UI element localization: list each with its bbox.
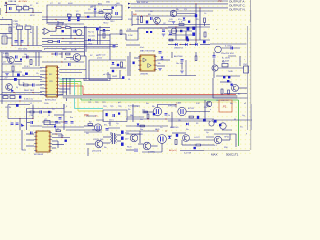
wire (84, 131, 102, 133)
wire thick bus (0, 51, 84, 53)
blue cap C11 (62, 30, 64, 32)
svg-text:47u: 47u (178, 19, 181, 21)
blue col sq3 (121, 143, 124, 146)
cap pair 3 (71, 122, 74, 124)
blue diode D7 (175, 43, 177, 46)
svg-text:B+ 13.8V: B+ 13.8V (222, 58, 231, 60)
wire (81, 55, 86, 57)
svg-text:GND1: GND1 (112, 76, 117, 78)
transistor Q17 (130, 134, 138, 142)
svg-text:3.3k: 3.3k (3, 53, 7, 55)
svg-text:4.7k: 4.7k (179, 22, 183, 24)
node (26, 56, 27, 57)
svg-text:Vref: Vref (140, 47, 144, 49)
wire (26, 139, 34, 141)
blue mark (112, 70, 114, 72)
cap inner2 (59, 118, 62, 120)
transistor Q11 (94, 124, 101, 131)
wire (22, 67, 42, 69)
svg-text:TP6: TP6 (118, 106, 121, 108)
svg-text:TP4: TP4 (103, 106, 106, 108)
svg-text:TP1: TP1 (88, 102, 91, 104)
svg-text:C14 22n: C14 22n (88, 36, 95, 38)
wire (224, 93, 247, 95)
svg-text:500C1T1: 500C1T1 (226, 152, 239, 156)
res small (228, 90, 230, 94)
wire (103, 136, 110, 138)
wire (168, 30, 192, 32)
wire (29, 7, 33, 9)
svg-text:78L12: 78L12 (103, 23, 108, 25)
wire (177, 13, 196, 15)
transformer T1 (112, 133, 114, 144)
wire (97, 31, 99, 45)
svg-text:10u 16V: 10u 16V (176, 63, 184, 65)
block LF2 (17, 26, 23, 29)
wire (229, 134, 231, 140)
svg-text:1k: 1k (23, 82, 25, 84)
wire (126, 118, 214, 120)
wire (220, 81, 232, 83)
wire (19, 119, 21, 131)
cyan vertical (74, 79, 76, 109)
nodes (55, 27, 56, 28)
fuse F1 (17, 7, 22, 10)
svg-text:MAX 738 5V/5A: MAX 738 5V/5A (140, 50, 155, 53)
vertical (61, 134, 63, 138)
wire (171, 52, 173, 58)
connector pin arrow 1 (128, 3, 131, 5)
IC U1 microcontroller DIP (46, 66, 58, 97)
svg-text:P2: P2 (223, 105, 227, 109)
resistor R11 (6, 53, 8, 58)
subcircuit box battery top (210, 43, 247, 45)
wire output N (131, 7, 228, 9)
svg-text:Cc: Cc (204, 13, 206, 15)
transistor Q14 mosfet (178, 107, 186, 115)
svg-text:X2: X2 (30, 5, 32, 7)
wire (7, 37, 12, 39)
red vertical (82, 86, 84, 95)
svg-text:C2: C2 (67, 14, 69, 16)
wire (221, 47, 240, 49)
resistor R8b (48, 41, 53, 43)
LED D2 (112, 7, 114, 9)
svg-text:AT89C2051: AT89C2051 (45, 99, 57, 102)
wire (107, 72, 109, 78)
wire vert (109, 74, 111, 79)
wire (48, 23, 58, 25)
wire (157, 59, 170, 61)
svg-text:REG1 7805: REG1 7805 (24, 90, 34, 92)
wire long right (62, 78, 122, 80)
resistor R12 (12, 66, 14, 71)
ground (172, 22, 176, 24)
ground (162, 34, 166, 36)
wire vertical (131, 11, 133, 26)
svg-text:2.2M: 2.2M (128, 35, 133, 37)
wire pin out 2 (59, 72, 82, 74)
svg-text:OUT GND OUT: OUT GND OUT (216, 100, 230, 102)
capacitor C6 (151, 17, 153, 20)
svg-text:330uH: 330uH (58, 135, 64, 137)
wire pin out 5 (59, 94, 63, 96)
wire (171, 112, 173, 128)
blue sq above IC3 (54, 126, 56, 128)
cap (231, 47, 233, 50)
wire (189, 139, 214, 141)
wire (98, 34, 111, 36)
svg-text:R2: R2 (89, 122, 91, 124)
op-amp symbol A (143, 58, 146, 62)
resistor R4b (204, 18, 206, 23)
resistor R13 (30, 60, 32, 65)
cap bars (169, 33, 172, 35)
wire (212, 119, 252, 121)
svg-text:6A05-600: 6A05-600 (92, 129, 100, 132)
wire y28 ext (138, 27, 196, 29)
svg-text:10k: 10k (136, 19, 139, 21)
wire (61, 52, 63, 58)
resistor R14 (66, 53, 71, 55)
transistor Q3 (170, 10, 177, 17)
wire (220, 75, 240, 77)
wire vert (38, 52, 40, 66)
capacitor C23 (16, 123, 19, 125)
subcircuit box mid (110, 34, 126, 52)
svg-text:LINE 2A: LINE 2A (8, 0, 17, 3)
wire bottom (142, 151, 162, 153)
cap pair 1 (55, 122, 58, 124)
wire (50, 124, 56, 126)
wire stub (0, 19, 12, 21)
box bottom edge 2 (89, 79, 108, 81)
blue cap small (188, 21, 190, 23)
IC U1 left pin wires (40, 67, 44, 69)
wire (2, 56, 8, 58)
wire pin r3 (52, 140, 58, 142)
wire (42, 121, 64, 123)
cap C21 (16, 104, 19, 107)
cap pair 2 (65, 122, 68, 124)
op-amp Q6 circle (215, 46, 222, 53)
wire (86, 143, 95, 145)
yellow vertical (77, 84, 79, 112)
svg-text:OUTPUT N: OUTPUT N (229, 7, 245, 11)
wire stub2 (0, 33, 12, 35)
nodes (11, 45, 12, 46)
wire vert navy 3 (69, 78, 71, 95)
wire (157, 65, 165, 67)
svg-text:LF1: LF1 (17, 24, 20, 26)
wire (182, 144, 196, 146)
capacitor C13 (113, 46, 116, 48)
diode D6 blue (186, 36, 188, 39)
wire sec2 (117, 140, 121, 142)
wire (195, 52, 197, 56)
blue sq a (223, 76, 225, 78)
node (6, 12, 7, 13)
wire (168, 24, 210, 26)
nodes (175, 26, 176, 27)
capacitor C1 (10, 7, 12, 10)
resistor R6 (57, 27, 62, 29)
colored wire cyan (59, 78, 74, 80)
cap inner (40, 111, 42, 114)
navy vertical (63, 104, 65, 130)
wire vert x138 (137, 16, 139, 25)
svg-text:MOV: MOV (30, 15, 35, 17)
wire (2, 71, 22, 73)
svg-text:22n C: 22n C (109, 120, 115, 122)
cap blue (153, 113, 155, 115)
transistor Q4 (76, 30, 82, 36)
wire (103, 142, 110, 144)
wire rail2 (42, 19, 122, 21)
resistor R3 (140, 17, 142, 23)
wire inner (27, 111, 30, 113)
wire (22, 7, 24, 9)
svg-text:Cx: Cx (108, 123, 110, 125)
filter block LF1 (24, 7, 29, 10)
node (46, 16, 47, 17)
blue col sq1 (121, 131, 124, 134)
blue bars in Q19 (161, 137, 164, 142)
red bus line (83, 94, 236, 96)
module blue glyph2 (118, 113, 120, 115)
wire (213, 71, 215, 78)
transistor Q16 C2073 (95, 140, 103, 148)
svg-text:Rq: Rq (230, 103, 233, 105)
diode D3 (183, 18, 186, 20)
wire vert (35, 52, 37, 66)
svg-text:Cg: Cg (242, 115, 245, 117)
cap (181, 60, 184, 62)
small box A (3, 96, 8, 99)
diode D4 blue (192, 27, 195, 30)
wire vert navy 2 (66, 78, 68, 101)
svg-text:22k: 22k (204, 107, 207, 109)
wire (55, 28, 57, 32)
wire (181, 63, 183, 70)
cap blue pair (117, 64, 119, 66)
vertical (181, 140, 183, 145)
yellow bus line faint (81, 101, 236, 103)
wire (129, 52, 131, 76)
nodes (147, 118, 148, 119)
svg-text:C2073: C2073 (93, 139, 99, 141)
resistor R2 (99, 12, 103, 14)
green bus line (81, 99, 239, 101)
op-amp symbol B (148, 64, 151, 68)
wire pin r4 (52, 144, 64, 146)
resistor R21 (189, 116, 194, 118)
wire (52, 53, 56, 55)
resistor R15 (121, 62, 123, 67)
resistor R20 (147, 114, 149, 119)
blue diode on row (88, 39, 90, 42)
svg-text:R12 1k: R12 1k (88, 32, 94, 34)
subcircuit box input left (12, 20, 42, 46)
frame right edge (247, 26, 249, 130)
transistor Q9 (6, 84, 13, 91)
wire (22, 56, 42, 58)
svg-text:22k: 22k (65, 25, 68, 27)
module cap (113, 114, 115, 117)
capacitor C3b (87, 16, 89, 18)
nodes (19, 118, 20, 119)
colored wire green (59, 81, 81, 83)
transistor Q13 mosfet (153, 107, 161, 115)
nodes (62, 38, 63, 39)
wire (222, 139, 230, 141)
svg-text:BAL 250V 5A: BAL 250V 5A (137, 1, 149, 4)
capacitor C22 (11, 123, 14, 125)
wire mid link (84, 12, 112, 14)
wire pin out 3 (59, 88, 70, 90)
vertical right of module (132, 104, 134, 122)
wire mid (50, 35, 84, 37)
blue cluster (25, 73, 28, 75)
wire (7, 4, 16, 6)
fsq small (20, 59, 22, 61)
wire vert navy 1 (62, 78, 64, 95)
wire (0, 76, 42, 78)
nodes (55, 19, 56, 20)
svg-text:GND: GND (88, 44, 93, 46)
capacitor C4 (116, 12, 118, 15)
wire (7, 105, 9, 119)
nodes (160, 27, 161, 28)
wire fuse drop (18, 10, 20, 13)
wire (2, 92, 42, 94)
svg-text:L-OUT: L-OUT (194, 137, 201, 139)
vertical (87, 148, 89, 156)
connector J1 AC line plug (4, 2, 7, 5)
svg-text:0.1u: 0.1u (24, 5, 28, 7)
wire (201, 144, 215, 146)
svg-text:(2SC2073): (2SC2073) (92, 151, 102, 153)
test point sq1 (146, 31, 148, 33)
svg-text:ADJ7660: ADJ7660 (174, 55, 183, 58)
wire (103, 9, 112, 11)
blue cap (19, 96, 21, 99)
svg-text:10n: 10n (168, 21, 171, 23)
capacitor left (133, 62, 135, 65)
left frame tick (0, 8, 2, 15)
wire (138, 143, 143, 145)
resistor R18 (88, 124, 93, 126)
svg-text:10k: 10k (158, 63, 161, 65)
cap C17 (27, 56, 29, 59)
capacitor C2 (68, 14, 72, 16)
svg-text:ThSD: ThSD (228, 71, 233, 73)
connector CN2 (244, 66, 249, 73)
module blue glyph1 (106, 113, 108, 116)
blue diode (161, 57, 164, 59)
wire (186, 111, 210, 113)
wire (19, 84, 24, 86)
wire (126, 30, 138, 32)
svg-text:C30: C30 (30, 115, 33, 117)
capacitor C3 (77, 14, 81, 16)
blue sq b (228, 76, 230, 78)
svg-text:Cy: Cy (116, 123, 118, 125)
svg-text:CON: CON (2, 34, 7, 36)
blue sq2 (203, 119, 206, 122)
svg-text:LM358N: LM358N (140, 74, 148, 76)
wire (134, 57, 140, 59)
wire pin r5 (52, 147, 56, 149)
vertical (70, 28, 72, 39)
resistor R22 (56, 130, 61, 132)
svg-text:0.33u 0.1u: 0.33u 0.1u (24, 98, 33, 100)
wire (110, 132, 112, 134)
cap (165, 114, 168, 116)
wire (239, 87, 248, 89)
wire (17, 29, 19, 45)
svg-text:1N5819 x3: 1N5819 x3 (174, 47, 183, 49)
blue cap (180, 30, 182, 32)
wire (18, 80, 20, 86)
cap above U4 (31, 132, 33, 135)
resistor R25 (196, 144, 201, 146)
wire (168, 44, 175, 46)
green vertical right (238, 100, 240, 146)
node (63, 121, 64, 122)
wire (180, 150, 204, 152)
capacitor C20 (213, 56, 216, 58)
blue col sq2 (121, 137, 124, 140)
circle lower (220, 123, 226, 129)
wire (27, 122, 30, 124)
wire (61, 27, 66, 29)
svg-text:(2.5V): (2.5V) (97, 58, 102, 60)
transistor Q19 big (158, 135, 167, 144)
cap blue big (187, 27, 190, 30)
wire (109, 52, 111, 60)
wire output A (136, 0, 228, 2)
nodes (51, 53, 52, 54)
wire (15, 61, 22, 63)
wire long gnd (0, 50, 42, 52)
node (199, 7, 200, 8)
capacitor C5 blue (146, 21, 148, 24)
svg-text:Cn: Cn (160, 127, 163, 129)
IC U3 dual op-amp DIP8 (140, 55, 155, 71)
vertical (139, 131, 141, 143)
ground (5, 74, 9, 76)
relay block (222, 64, 228, 67)
wire loop (214, 134, 236, 147)
wire pin r1 (52, 133, 62, 135)
blue sq right (203, 41, 206, 44)
wire inner (47, 22, 64, 24)
block LF3 (25, 26, 31, 29)
wire (126, 149, 134, 151)
frame tick right (250, 0, 252, 22)
subcircuit box power supply (47, 5, 122, 24)
wire double (127, 56, 129, 76)
module bottom stub (109, 122, 111, 127)
svg-text:Q3: Q3 (3, 62, 6, 64)
transistor Q10 (232, 85, 239, 92)
wire gate link (158, 105, 177, 108)
resistor R8c (120, 30, 122, 35)
node (61, 61, 62, 62)
nodes (157, 130, 158, 131)
wire (0, 79, 42, 81)
